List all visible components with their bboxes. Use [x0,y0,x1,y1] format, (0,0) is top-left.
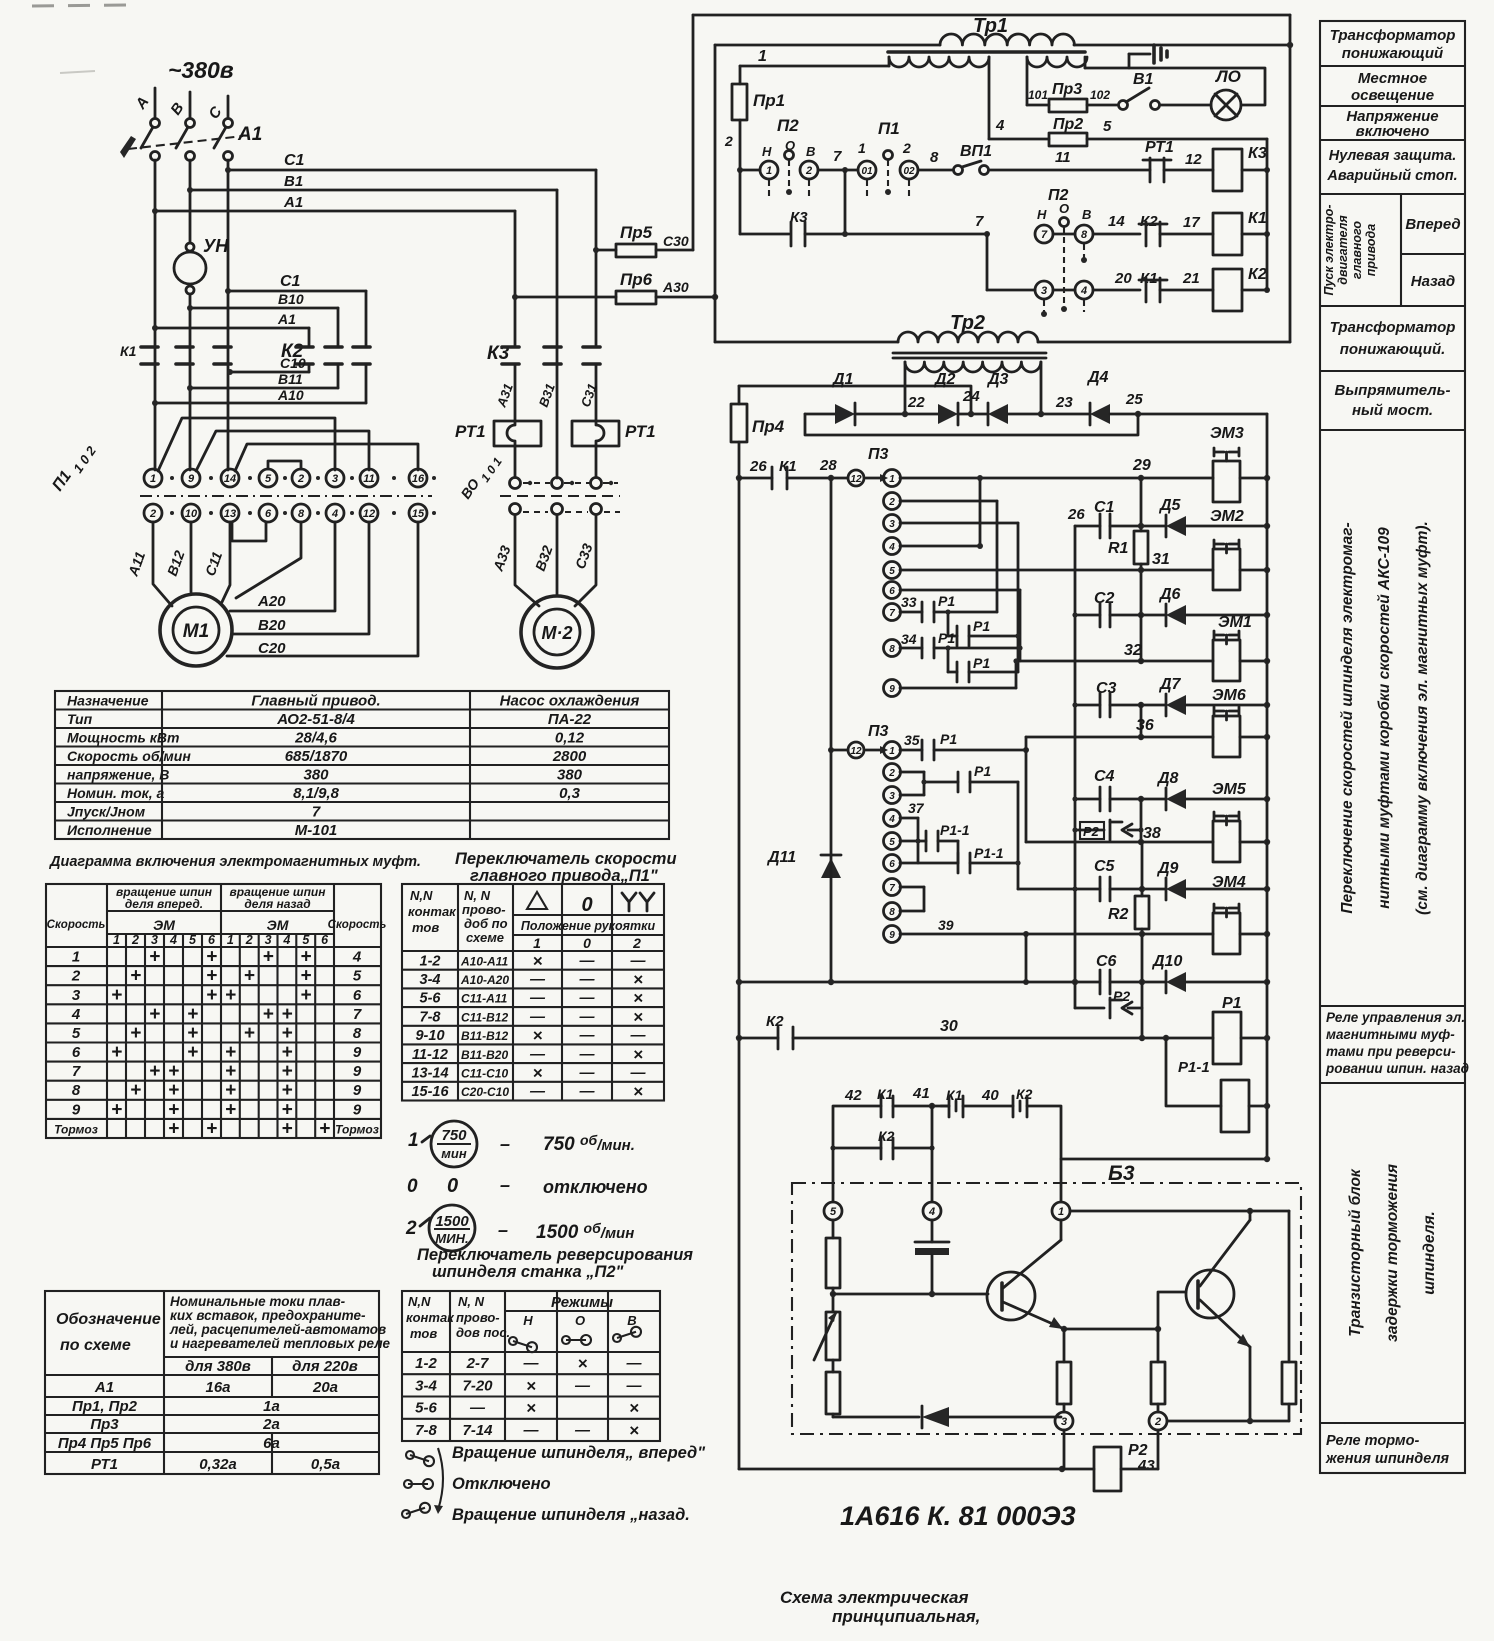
svg-text:Переключатель скорости: Переключатель скорости [455,850,677,868]
relay coil R2 [1094,1447,1121,1491]
resistor R1 [1134,531,1148,564]
svg-text:В1: В1 [284,173,303,190]
svg-text:—: — [579,1008,596,1025]
svg-text:3-4: 3-4 [420,972,441,988]
svg-text:24: 24 [962,388,980,405]
svg-text:А1: А1 [237,124,262,145]
svg-text:С30: С30 [663,233,689,249]
svg-text:Н: Н [762,144,772,159]
row 38 / clutch EM5 [1138,839,1144,845]
svg-text:РТ1: РТ1 [455,422,486,441]
svg-text:8: 8 [889,907,895,918]
svg-text:Трансформатор: Трансформатор [1330,319,1456,336]
contact R1 d [947,648,950,672]
svg-text:схеме: схеме [466,930,504,945]
svg-text:+: + [281,1061,292,1082]
fuse Pr5 [596,249,616,252]
svg-text:АО2-51-8/4: АО2-51-8/4 [276,711,355,728]
phase B lead-in [189,92,192,118]
svg-text:Вращение шпинделя „назад.: Вращение шпинделя „назад. [452,1506,690,1524]
svg-text:А: А [132,94,153,113]
node 32 / clutch EM1 [1140,615,1143,661]
svg-text:отключено: отключено [543,1177,648,1197]
svg-text:магнитными муф-: магнитными муф- [1326,1027,1455,1042]
lamp return wire [1085,68,1265,105]
bottom bus [739,1468,1094,1471]
svg-text:2: 2 [805,165,812,177]
svg-text:5: 5 [302,933,310,947]
svg-text:0: 0 [407,1176,418,1197]
svg-text:С11-А11: С11-А11 [461,992,508,1006]
svg-text:11: 11 [363,473,374,485]
svg-text:Насос охлаждения: Насос охлаждения [500,693,640,710]
wire C1 to K2 col3 [228,290,366,293]
contact R2 + node 38 [1140,799,1143,842]
svg-text:В11-В12: В11-В12 [461,1029,508,1043]
potentiometer [826,1312,840,1360]
svg-text:по схеме: по схеме [60,1337,131,1354]
transformer Tr1 secondary 1 [889,57,989,67]
svg-text:мин: мин [441,1146,467,1161]
svg-text:К1: К1 [1248,210,1267,227]
svg-text:П2: П2 [1048,187,1069,204]
svg-text:1: 1 [408,1130,419,1151]
svg-text:×: × [526,1376,536,1395]
resistor right [1288,1211,1291,1362]
P2 icon N [509,1337,517,1345]
legend lever forward [406,1451,414,1459]
svg-text:А1: А1 [94,1379,114,1396]
node 24 [958,413,988,416]
svg-text:13: 13 [224,508,236,520]
svg-text:+: + [225,1042,236,1063]
svg-text:Д11: Д11 [766,849,796,866]
svg-text:ЭМ1: ЭМ1 [1218,614,1252,631]
svg-text:13-14: 13-14 [411,1066,448,1082]
svg-text:–: – [500,1134,510,1154]
svg-text:понижающий.: понижающий. [1340,341,1446,358]
svg-text:R1: R1 [1108,540,1129,557]
svg-text:12: 12 [850,474,862,485]
svg-text:Пуск электро-: Пуск электро- [1322,204,1336,295]
fuse Pr2 [989,138,1049,141]
svg-text:+: + [244,966,255,987]
svg-text:А10: А10 [277,387,304,403]
svg-text:Пр4 Пр5 Пр6: Пр4 Пр5 Пр6 [58,1435,152,1452]
T2 collector to wire 1 [1070,1210,1289,1213]
svg-text:главного привода„П1": главного привода„П1" [470,867,658,885]
svg-text:—: — [523,1355,540,1372]
svg-text:×: × [526,1399,536,1418]
node 22 [855,413,938,416]
wire col B31 from B1 [556,190,559,478]
svg-text:Р1: Р1 [973,655,990,671]
svg-text:Пр1, Пр2: Пр1, Пр2 [72,1398,138,1415]
resistor R2 [1135,896,1149,929]
svg-text:Положение рукоятки: Положение рукоятки [521,919,656,933]
wire B1 [190,189,557,192]
svg-text:—: — [579,1065,596,1082]
svg-text:+: + [111,1042,122,1063]
svg-text:К1: К1 [877,1086,894,1102]
svg-text:М-101: М-101 [295,822,338,839]
switch V1 [1119,101,1128,110]
svg-text:К2: К2 [1140,213,1158,230]
svg-text:Главный привод.: Главный привод. [251,693,380,710]
phase A lead-in [154,88,157,118]
svg-text:34: 34 [901,631,917,647]
left bus (wire 26) [738,386,741,404]
svg-text:+: + [225,1080,236,1101]
svg-text:4: 4 [995,117,1005,134]
svg-text:С1: С1 [280,273,301,290]
svg-text:прово-: прово- [456,1310,500,1325]
svg-text:01: 01 [861,166,873,177]
P3 wire from 3 [900,522,1018,525]
svg-text:Номинальные токи плав-: Номинальные токи плав- [170,1294,346,1309]
svg-text:+: + [281,1042,292,1063]
terminal 4 [923,1202,941,1220]
svg-text:2: 2 [245,933,253,947]
svg-text:12: 12 [850,746,862,757]
svg-text:Нулевая защита.: Нулевая защита. [1329,148,1457,164]
switch VO bottom contacts [510,504,521,515]
svg-text:Д9: Д9 [1156,860,1179,877]
svg-text:×: × [633,970,643,989]
svg-text:—: — [574,1377,591,1394]
P1 contact circles top row [144,469,427,487]
svg-text:6: 6 [889,859,895,870]
svg-text:7: 7 [353,1006,362,1023]
riser to rows 36-38 [1025,737,1028,842]
wire 11 [989,169,1150,172]
svg-text:26: 26 [1067,506,1085,523]
svg-text:+: + [281,1004,292,1025]
svg-text:В11: В11 [278,371,303,387]
svg-text:Р1-1: Р1-1 [1178,1059,1210,1076]
svg-text:Режимы: Режимы [551,1294,613,1311]
svg-text:8: 8 [72,1082,81,1099]
svg-text:понижающий: понижающий [1342,45,1443,62]
svg-text:+: + [149,1061,160,1082]
svg-text:(см. диаграмму включения эл. м: (см. диаграмму включения эл. магнитных м… [1414,521,1431,915]
svg-text:Р2: Р2 [1083,824,1100,839]
svg-text:2800: 2800 [552,748,587,765]
contact K1 crossed [948,1096,951,1117]
transistor T2 [1186,1270,1234,1318]
svg-text:1500: 1500 [435,1213,469,1230]
switch A1 mechanical link [128,136,243,149]
svg-text:1: 1 [858,140,866,156]
svg-text:ВП1: ВП1 [960,143,992,160]
wire row 29 from P3-1 [900,477,1213,480]
svg-text:2: 2 [297,473,304,485]
svg-text:А11: А11 [124,549,148,579]
switch A1 pole 1 [151,119,160,128]
wire 1 [740,65,889,68]
node 29 [1138,475,1144,481]
svg-text:А10-А20: А10-А20 [460,973,509,987]
wire P1 link 9-11 [196,431,369,471]
svg-text:для 220в: для 220в [292,1358,358,1375]
svg-text:тов: тов [412,920,439,935]
svg-text:38: 38 [1143,825,1161,842]
svg-text:доб по: доб по [464,916,508,931]
svg-text:прово-: прово- [462,902,506,917]
svg-text:16а: 16а [205,1379,230,1396]
svg-text:1500 об/мин: 1500 об/мин [536,1220,634,1243]
svg-text:Пр4: Пр4 [752,417,785,436]
svg-text:П3: П3 [868,446,889,463]
svg-text:Р1: Р1 [938,630,955,646]
svg-text:1: 1 [113,933,120,947]
thermal element RT1 left [494,421,541,446]
svg-text:28: 28 [819,457,837,474]
P2 icon V [613,1334,621,1342]
wire B32 to M2 [556,515,559,595]
svg-text:37: 37 [908,800,925,816]
svg-text:К1: К1 [1140,270,1158,287]
terminal 1 [1052,1202,1070,1220]
svg-text:9: 9 [353,1082,362,1099]
svg-text:2: 2 [131,933,139,947]
svg-text:ВО: ВО [457,476,482,502]
wire P1 link 14-16 [235,444,418,471]
svg-text:Пр3: Пр3 [1052,81,1082,98]
row1: wire 2 to K3 coil [740,169,760,172]
svg-text:+: + [281,1080,292,1101]
svg-text:1-2: 1-2 [420,953,441,969]
svg-text:Скорость об/мин: Скорость об/мин [67,748,191,764]
svg-text:4: 4 [928,1206,935,1218]
svg-text:30: 30 [940,1018,958,1035]
svg-text:главного: главного [1350,221,1364,279]
svg-text:В32: В32 [532,543,556,573]
svg-text:40: 40 [981,1087,999,1104]
svg-text:В10: В10 [278,291,304,307]
contactor K1 contact pole A [141,345,158,349]
contactor K1 contact pole C [214,345,231,349]
contactor K1 contact pole B [176,345,193,349]
wire 17 / coil K1 [1160,233,1213,236]
svg-text:750 об/мин.: 750 об/мин. [543,1132,635,1155]
svg-text:R2: R2 [1108,906,1129,923]
svg-text:С33: С33 [572,541,596,571]
svg-text:напряжение, В: напряжение, В [67,767,169,783]
svg-text:380: 380 [557,767,583,784]
motor M1 [160,594,232,666]
svg-text:Д8: Д8 [1156,770,1179,787]
wire 21 / coil K2 [1160,289,1213,292]
svg-text:6: 6 [72,1044,81,1061]
svg-text:5: 5 [353,968,362,985]
svg-text:N, N: N, N [464,888,491,903]
row3 feeder [986,234,989,290]
svg-text:N,N: N,N [410,888,433,903]
svg-text:+: + [225,985,236,1006]
svg-text:Д2: Д2 [933,371,956,388]
svg-text:принципиальная,: принципиальная, [832,1607,980,1626]
svg-text:Д4: Д4 [1086,369,1109,386]
fuse Pr1 [739,66,742,84]
svg-text:+: + [187,1023,198,1044]
svg-text:К1: К1 [120,343,137,359]
contactor K2 contact pole 3 [353,345,370,349]
svg-text:1: 1 [889,746,895,757]
svg-text:Тормоз: Тормоз [54,1123,98,1137]
svg-text:9: 9 [353,1063,362,1080]
svg-text:26: 26 [749,458,767,475]
wire A20 [230,522,335,611]
svg-text:Р1-1: Р1-1 [974,845,1004,861]
contact R1 lower b [924,781,958,784]
svg-text:Реле управления эл.: Реле управления эл. [1326,1010,1465,1025]
svg-text:4: 4 [331,508,338,520]
emitter node row [1061,1326,1067,1332]
svg-text:×: × [578,1354,588,1373]
svg-text:0: 0 [581,894,592,916]
svg-text:×: × [533,1026,543,1045]
svg-text:1: 1 [1058,1206,1064,1218]
svg-text:А1: А1 [283,194,303,211]
wire 13-6 link [232,522,266,541]
phase C lead-in [227,96,230,118]
svg-text:—: — [574,1422,591,1439]
selector P1 dashed axis [140,495,432,497]
svg-text:1: 1 [150,473,156,485]
svg-text:УН: УН [203,236,229,256]
svg-text:деля назад: деля назад [244,897,310,911]
svg-text:7: 7 [1041,229,1048,241]
svg-text:Р1: Р1 [973,618,990,634]
svg-text:В31: В31 [536,381,558,409]
thermal contact RT1 [1149,158,1152,182]
svg-text:Схема электрическая: Схема электрическая [780,1588,969,1607]
svg-text:Скорость: Скорость [47,919,106,931]
svg-text:А1: А1 [277,311,296,327]
contactor K3 contact pole 2 [544,345,561,349]
svg-text:С10: С10 [280,355,306,371]
scan artifacts [32,5,128,6]
base wire T1 [833,1293,988,1296]
svg-text:6: 6 [265,508,272,520]
svg-text:4: 4 [71,1006,81,1023]
wire 20 [1053,289,1075,292]
svg-text:П2: П2 [777,116,799,135]
svg-text:3: 3 [1061,1416,1067,1428]
svg-text:+: + [187,1042,198,1063]
svg-text:Jпуск/Jном: Jпуск/Jном [67,804,146,820]
svg-text:×: × [633,1045,643,1064]
svg-text:6а: 6а [263,1435,280,1452]
svg-text:Д10: Д10 [1151,953,1182,970]
resistor T2 emitter [1157,1329,1160,1362]
svg-text:С4: С4 [1094,768,1115,785]
svg-text:С6: С6 [1096,953,1117,970]
svg-text:+: + [244,1023,255,1044]
fuse Pr4 [731,404,747,442]
svg-text:4: 4 [1080,285,1087,297]
terminal 5 [824,1202,842,1220]
svg-text:8: 8 [353,1025,362,1042]
svg-text:+: + [319,1119,330,1140]
svg-text:22: 22 [907,394,925,411]
right return bus [1266,414,1269,1159]
svg-text:А30: А30 [662,279,689,295]
resistor chain left [832,1220,835,1238]
contact K2 crossed [1012,1096,1015,1117]
wire A33 to M2 [515,515,539,606]
svg-text:35: 35 [904,732,920,748]
svg-text:102: 102 [1090,88,1110,102]
svg-text:1: 1 [227,933,234,947]
svg-text:М·2: М·2 [542,623,573,643]
svg-text:тами при реверси-: тами при реверси- [1326,1044,1456,1059]
svg-text:+: + [281,1023,292,1044]
svg-text:×: × [533,951,543,970]
svg-text:Аварийный стоп.: Аварийный стоп. [1326,168,1457,184]
svg-text:28/4,6: 28/4,6 [294,730,337,747]
svg-text:О: О [575,1313,585,1328]
svg-text:5: 5 [889,566,895,577]
svg-text:С20-С10: С20-С10 [461,1085,509,1099]
svg-text:ЛО: ЛО [1214,67,1241,86]
svg-text:7-20: 7-20 [462,1377,493,1394]
svg-text:Исполнение: Исполнение [67,822,152,838]
wire 12 / coil K3 [1164,169,1213,172]
wire B12 to motor [190,522,193,592]
svg-text:Р1-1: Р1-1 [940,822,970,838]
svg-text:N,N: N,N [408,1294,431,1309]
svg-text:Пр6: Пр6 [620,270,653,289]
svg-text:3: 3 [889,791,895,802]
svg-text:—: — [630,952,647,969]
box right edge [1289,15,1292,342]
svg-text:7-14: 7-14 [462,1422,493,1439]
svg-text:3: 3 [889,519,895,530]
svg-text:К3: К3 [1248,145,1267,162]
svg-text:1: 1 [758,48,767,65]
svg-text:ПА-22: ПА-22 [548,711,592,728]
svg-text:Отключено: Отключено [452,1475,551,1493]
contactor K3 contact pole 3 [583,345,600,349]
contact R2 second [1074,982,1077,1008]
row 39 / clutch EM4 [1139,931,1145,937]
svg-text:—: — [529,990,546,1007]
svg-text:0,3: 0,3 [559,785,581,802]
svg-text:Транзисторный блок: Транзисторный блок [1347,1168,1364,1337]
wire A30 drop [714,45,717,342]
wire B11 [190,387,338,390]
node 25 [1110,413,1267,416]
svg-text:–: – [500,1175,510,1195]
svg-text:—: — [523,1422,540,1439]
svg-text:Б3: Б3 [1108,1162,1135,1185]
svg-text:0,32а: 0,32а [199,1456,237,1473]
svg-text:8: 8 [930,149,939,166]
svg-text:—: — [579,1083,596,1100]
legend lever off [404,1480,412,1488]
svg-text:шпинделя станка „П2": шпинделя станка „П2" [432,1263,624,1281]
T2 emitter drop [1249,1347,1252,1421]
switch VO axis dashed [500,495,620,497]
svg-text:Тип: Тип [67,711,93,727]
svg-text:4: 4 [169,933,177,947]
svg-text:3: 3 [72,987,81,1004]
svg-text:—: — [626,1355,643,1372]
svg-text:Переключатель реверсирования: Переключатель реверсирования [417,1246,693,1264]
K2 col1 vertical [308,328,311,347]
